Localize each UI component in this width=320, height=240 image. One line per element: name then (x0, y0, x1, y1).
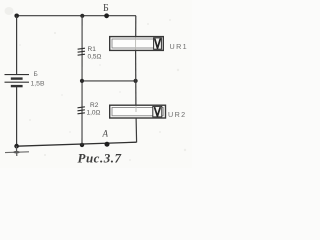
node: junction dot middle-left (80, 79, 84, 83)
svg-text:Рис.3.7: Рис.3.7 (78, 151, 122, 166)
voltmeter UR2 (box with V) (110, 105, 166, 118)
wire: bottom horizontal (sloped scan) (17, 142, 137, 146)
svg-text:Б: Б (103, 3, 109, 14)
svg-text:R2: R2 (90, 102, 99, 109)
wire: middle column vertical (81, 16, 83, 145)
wire: right column vertical top (135, 16, 137, 37)
node: junction dot top-left (14, 14, 19, 19)
voltmeter UR1 (box with V) (110, 37, 164, 51)
scan background (0, 0, 192, 168)
svg-text:UR2: UR2 (168, 110, 187, 119)
svg-text:Б: Б (34, 71, 38, 78)
resistor R1 (hash marks on wire) (78, 48, 85, 55)
wire: top horizontal from battery to right column (17, 15, 137, 17)
wire: right column vertical middle (135, 50, 137, 105)
wire: right column vertical bottom (135, 118, 138, 142)
node: junction dot bottom-left (14, 144, 19, 149)
node B (Б) dot on top wire (104, 13, 109, 18)
wire: left vertical lower (battery - to bottom wire) (16, 87, 18, 146)
node: junction dot bottom of middle column (80, 143, 84, 147)
svg-text:UR1: UR1 (170, 42, 189, 51)
svg-text:R1: R1 (88, 46, 97, 53)
wire: left vertical upper (battery + to top wire) (16, 16, 18, 74)
resistor R2 (hash marks on wire) (78, 107, 85, 114)
node: junction dot at top of middle column (80, 14, 84, 18)
svg-text:1,5В: 1,5В (31, 81, 45, 88)
svg-text:1,0Ω: 1,0Ω (87, 110, 101, 117)
wire: middle horizontal (R1/R2 junction to voltmeter tap) (82, 80, 136, 82)
node: junction dot middle-right (134, 79, 138, 83)
battery GB 1.5V (5, 75, 30, 87)
svg-text:0,5Ω: 0,5Ω (88, 54, 102, 61)
svg-text:А: А (102, 129, 109, 139)
scan artifact: smudge below bottom-left junction (5, 151, 29, 154)
node A (А) dot on bottom wire (105, 142, 110, 147)
